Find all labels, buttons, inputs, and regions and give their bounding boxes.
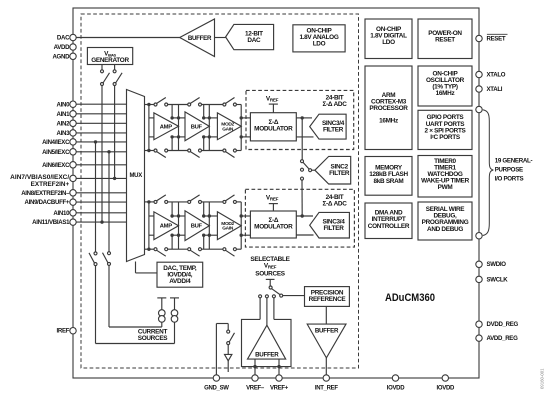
pin RESET <box>476 35 482 41</box>
svg-text:09160-001: 09160-001 <box>540 368 545 389</box>
wire buffer to VREF- pin <box>254 359 256 375</box>
svg-text:8kB SRAM: 8kB SRAM <box>374 178 404 185</box>
wire AIN1 to MUX <box>76 113 126 115</box>
wire mux output stubs <box>145 201 149 203</box>
node VREF tap ADC0 <box>269 103 278 105</box>
pin XTALI <box>476 86 482 92</box>
svg-text:GND_SW: GND_SW <box>204 386 229 392</box>
svg-text:BUF: BUF <box>191 124 203 130</box>
switch VREF source select <box>269 286 272 289</box>
block VBIAS generator <box>87 48 132 65</box>
wire vref switch to precision reference <box>283 295 305 297</box>
svg-text:AVDD/4: AVDD/4 <box>169 278 191 285</box>
svg-text:AIN1: AIN1 <box>57 111 71 118</box>
supply rail current source 1 <box>157 297 166 299</box>
wire mux output stubs <box>145 104 149 106</box>
pin INT_REF <box>323 375 329 381</box>
switch current source B <box>108 252 111 255</box>
svg-text:DAC: DAC <box>57 35 70 42</box>
supply rail current source 2 <box>170 297 179 299</box>
pin AIN9/DACBUFF+ <box>70 199 76 205</box>
pin AIN1 <box>70 111 76 117</box>
wire modulator1 outputs <box>296 215 313 217</box>
switch chain bottom rail bypass 3 <box>236 248 241 250</box>
op-amp AMP <box>154 212 179 240</box>
op-amp MOD2 GAIN <box>217 212 241 240</box>
svg-text:SWCLK: SWCLK <box>487 276 509 283</box>
pin AVDD <box>70 44 76 50</box>
svg-text:XTALO: XTALO <box>487 71 506 78</box>
svg-text:AIN2: AIN2 <box>57 120 71 127</box>
node chain input column <box>148 202 150 249</box>
chip dashed boundary <box>81 14 359 368</box>
wire chain input mid stubs <box>149 215 154 217</box>
pin AIN3 <box>70 130 76 136</box>
svg-text:AMP: AMP <box>160 224 172 230</box>
switch chain bottom rail bypass 2 <box>202 150 223 152</box>
pin SWCLK <box>476 276 482 282</box>
pin VREF+ <box>276 375 282 381</box>
wire AIN5 to MUX <box>76 151 126 153</box>
svg-text:SELECTABLE: SELECTABLE <box>250 256 290 263</box>
wire current source 1 to switch B <box>109 326 162 328</box>
svg-text:IREF: IREF <box>57 328 70 335</box>
switch current source A <box>94 252 97 255</box>
adc 24-BIT sigma-delta ADC 0 boundary <box>246 90 354 149</box>
buffer DAC output buffer <box>180 19 215 57</box>
pin AIN10 <box>70 210 76 216</box>
node selectable vref input circles <box>259 295 262 298</box>
current source 1 <box>159 310 166 317</box>
svg-text:AIN7/VBIAS0/IEXC/: AIN7/VBIAS0/IEXC/ <box>10 174 69 181</box>
svg-text:BUFFER: BUFFER <box>188 35 212 42</box>
wire current source column B <box>108 152 110 252</box>
svg-text:19 GENERAL-: 19 GENERAL- <box>495 158 533 165</box>
svg-text:MUX: MUX <box>129 173 142 179</box>
wire VBIAS0 column <box>114 86 116 179</box>
switch chain top rail bypass 3 <box>236 201 241 203</box>
pin AIN2 <box>70 120 76 126</box>
switch GND_SW <box>227 330 230 333</box>
pin AIN8/EXTREF2IN- <box>70 190 76 196</box>
wire chain input mid stubs <box>149 117 154 119</box>
switch chain bottom rail bypass 1 <box>149 150 154 152</box>
svg-text:AIN4/IEXC: AIN4/IEXC <box>42 139 70 146</box>
wire GND_SW riser <box>215 324 217 375</box>
svg-text:FILTER: FILTER <box>323 225 344 232</box>
svg-text:Σ-Δ ADC: Σ-Δ ADC <box>322 200 347 207</box>
wire buffer to 12-bit DAC <box>215 37 226 39</box>
wire BUF output nodes <box>203 202 205 216</box>
svg-text:AIN5/IEXC: AIN5/IEXC <box>42 149 70 156</box>
svg-text:PURPOSE: PURPOSE <box>495 167 523 174</box>
wire AIN72L to MUX <box>76 177 126 179</box>
pin AIN11/VBIAS1 <box>70 219 76 225</box>
wire current source 2 to switch A <box>96 343 175 345</box>
svg-text:I2C PORTS: I2C PORTS <box>430 134 461 141</box>
svg-text:GENERATOR: GENERATOR <box>91 57 129 64</box>
switch VBIAS0 select <box>101 65 103 70</box>
svg-text:Σ-Δ ADC: Σ-Δ ADC <box>322 101 347 108</box>
svg-text:VREF: VREF <box>266 95 279 102</box>
svg-text:DVDD_REG: DVDD_REG <box>487 321 519 328</box>
wire SINC2 switch to filter <box>312 169 315 171</box>
switch chain top rail bypass 2 <box>202 104 223 106</box>
modulator sigma-delta ADC1 <box>250 211 296 238</box>
svg-text:GAIN: GAIN <box>222 126 234 132</box>
pin AVDD_REG <box>476 335 482 341</box>
switch chain bottom rail bypass 2 <box>202 248 223 250</box>
wire MOD2 GAIN output node <box>240 202 242 249</box>
switch VBIAS0 select B <box>114 65 116 70</box>
svg-text:EXTREF2IN+: EXTREF2IN+ <box>31 181 70 188</box>
pin AIN6/IEXC <box>70 162 76 168</box>
pin AIN4/IEXC <box>70 139 76 145</box>
op-amp BUF <box>185 112 209 141</box>
svg-text:GAIN: GAIN <box>222 226 234 232</box>
svg-text:I/O PORTS: I/O PORTS <box>495 176 524 183</box>
svg-text:AIN0: AIN0 <box>57 101 71 108</box>
filter SINC3/4 ADC1 <box>310 212 350 238</box>
wire modulator0 outputs <box>296 117 312 119</box>
svg-text:AIN6/IEXC: AIN6/IEXC <box>42 162 70 169</box>
wire precision reference to buffer <box>325 306 327 324</box>
wire AIN9 to MUX <box>76 201 126 203</box>
pin GPIO lower <box>476 233 482 239</box>
svg-text:BUFFER: BUFFER <box>315 327 339 334</box>
wire MUX to DAC TEMP block <box>135 262 137 273</box>
pin VREF- <box>252 375 258 381</box>
svg-text:VREF: VREF <box>266 194 279 201</box>
wire AIN6 to MUX <box>76 164 126 166</box>
svg-text:AMP: AMP <box>160 124 172 130</box>
svg-text:AIN8/EXTREF2IN–: AIN8/EXTREF2IN– <box>21 190 70 197</box>
svg-text:16MHz: 16MHz <box>379 118 398 125</box>
svg-text:VREF+: VREF+ <box>270 386 289 392</box>
pin DAC <box>70 34 76 40</box>
wire AMP output nodes <box>171 202 173 216</box>
wire current source column A <box>95 142 97 252</box>
wire buffer to VREF+ pin <box>278 359 280 375</box>
switch chain bottom rail bypass 3 <box>236 150 241 152</box>
svg-text:BUFFER: BUFFER <box>255 352 279 359</box>
oscillator ON-CHIP OSCILLATOR <box>418 66 472 106</box>
pin AIN7/VBIAS0/IEXC/EXTREF2IN+ <box>70 175 76 181</box>
svg-text:LDO: LDO <box>313 40 326 47</box>
svg-text:MODULATOR: MODULATOR <box>254 224 293 231</box>
pin SWDIO <box>476 261 482 267</box>
pin IREF <box>70 328 76 334</box>
filter SINC2 <box>315 156 351 184</box>
svg-text:REFERENCE: REFERENCE <box>309 296 347 303</box>
wire AIN8 to MUX <box>76 192 126 194</box>
block DMA AND INTERRUPT CONTROLLER <box>365 203 412 239</box>
block PRECISION REFERENCE <box>305 287 350 307</box>
svg-text:IOVDD: IOVDD <box>437 386 455 392</box>
svg-text:AVDD: AVDD <box>54 44 71 51</box>
svg-text:AIN9/DACBUFF+: AIN9/DACBUFF+ <box>25 199 70 206</box>
current source 2 <box>171 310 178 317</box>
switch SINC2 input select <box>301 160 304 163</box>
svg-text:BUF: BUF <box>191 224 203 230</box>
pin AIN0 <box>70 101 76 107</box>
pin IOVDD <box>392 375 398 381</box>
wire vref select to buffer box <box>259 298 261 320</box>
filter SINC3/4 ADC0 <box>310 114 346 139</box>
wire ADC0 to SINC2 switch <box>301 118 303 160</box>
svg-text:VREF–: VREF– <box>246 386 265 392</box>
block GPIO UART SPI I2C ports <box>418 110 472 149</box>
wire AIN10 to MUX <box>76 212 126 214</box>
dac 12-BIT DAC <box>226 24 274 49</box>
block DAC TEMP IOVDD/4 AVDD/4 monitor <box>157 262 203 287</box>
svg-text:FILTER: FILTER <box>323 127 344 134</box>
svg-text:IOVDD: IOVDD <box>387 386 405 392</box>
svg-text:AND DEBUG: AND DEBUG <box>427 226 463 233</box>
wire DAC to buffer <box>76 37 180 39</box>
wire AMP output nodes <box>171 105 173 118</box>
wire AIN4 to MUX <box>76 141 126 143</box>
modulator sigma-delta ADC0 <box>250 113 296 141</box>
wire SINC2 switch to ADC1 <box>301 180 303 216</box>
wire BUF output nodes <box>203 105 205 118</box>
switch chain top rail bypass 3 <box>236 104 241 106</box>
pin IOVDD <box>442 375 448 381</box>
mux MUX <box>127 90 145 262</box>
block POWER-ON RESET <box>418 19 472 59</box>
adc 24-BIT sigma-delta ADC 1 boundary <box>245 189 354 247</box>
buffer VREF buffer <box>248 325 286 359</box>
wire AIN0 to MUX <box>76 103 126 105</box>
svg-text:RESET: RESET <box>487 36 506 43</box>
svg-text:AVDD_REG: AVDD_REG <box>487 335 519 342</box>
wire buffer to INT_REF pin <box>325 358 327 375</box>
svg-text:AIN3: AIN3 <box>57 130 71 137</box>
wire AIN3 to MUX <box>76 132 126 134</box>
wire AIN11 to MUX <box>76 221 126 223</box>
svg-text:SOURCES: SOURCES <box>255 271 286 278</box>
svg-text:PWM: PWM <box>438 184 453 191</box>
svg-text:FILTER: FILTER <box>329 170 350 177</box>
svg-text:RESET: RESET <box>435 37 455 44</box>
pin XTALO <box>476 71 482 77</box>
block VREF buffer enclosure <box>242 319 292 366</box>
pin GND_SW <box>213 375 219 381</box>
svg-text:INT_REF: INT_REF <box>315 386 339 392</box>
regulator ON-CHIP 1.8V ANALOG LDO <box>293 25 345 52</box>
op-amp AMP <box>154 113 179 140</box>
svg-text:SWDIO: SWDIO <box>487 261 507 268</box>
pin GPIO upper <box>476 106 482 112</box>
bracket 19 general purpose IO ports <box>483 110 494 236</box>
node VREF source tap <box>266 278 275 280</box>
svg-text:AGND: AGND <box>52 53 70 60</box>
svg-text:MODULATOR: MODULATOR <box>254 126 293 133</box>
svg-text:SOURCES: SOURCES <box>138 335 169 342</box>
svg-text:CONTROLLER: CONTROLLER <box>368 223 410 230</box>
op-amp BUF <box>185 211 209 241</box>
processor ARM CORTEX-M3 <box>365 66 412 150</box>
svg-text:VREF: VREF <box>264 263 277 270</box>
svg-text:PROCESSOR: PROCESSOR <box>369 105 408 112</box>
pin DVDD_REG <box>476 321 482 327</box>
ground analog ground symbol <box>225 354 232 360</box>
outer package boundary <box>73 8 479 378</box>
wire MOD2 GAIN output node <box>240 105 242 151</box>
node chain input column <box>148 105 150 151</box>
wire AIN2 to MUX <box>76 122 126 124</box>
svg-text:AIN11/VBIAS1: AIN11/VBIAS1 <box>32 219 70 226</box>
svg-text:AIN10: AIN10 <box>53 210 70 217</box>
regulator ON-CHIP 1.8V DIGITAL LDO <box>365 19 412 59</box>
svg-text:ADuCM360: ADuCM360 <box>385 292 435 304</box>
wire VBIAS1 column <box>101 86 103 223</box>
block SERIAL WIRE DEBUG PROGRAMMING AND DEBUG <box>418 202 472 240</box>
memory MEMORY 128kB FLASH 8kB SRAM <box>365 157 412 196</box>
block TIMER0 TIMER1 WATCHDOG WAKE-UP TIMER PWM <box>418 156 472 198</box>
switch chain bottom rail bypass 1 <box>149 248 154 250</box>
pin AIN5/IEXC <box>70 149 76 155</box>
svg-text:16MHz: 16MHz <box>436 90 455 97</box>
pin AGND <box>70 53 76 59</box>
svg-text:LDO: LDO <box>382 39 395 46</box>
switch chain top rail bypass 1 <box>149 201 154 203</box>
op-amp MOD2 GAIN <box>217 113 241 140</box>
switch chain top rail bypass 1 <box>149 104 154 106</box>
svg-text:DAC: DAC <box>247 37 261 44</box>
svg-text:XTALI: XTALI <box>487 86 503 93</box>
buffer INT_REF buffer <box>307 324 346 358</box>
switch chain top rail bypass 2 <box>202 201 223 203</box>
node VREF tap ADC1 <box>269 203 278 205</box>
